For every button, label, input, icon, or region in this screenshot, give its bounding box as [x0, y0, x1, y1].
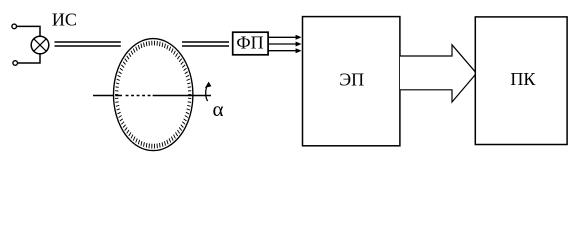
light beam right	[182, 42, 229, 46]
wire bottom terminal to lamp	[18, 54, 40, 63]
lamp ИС	[31, 36, 49, 54]
disc graduation ticks	[115, 41, 191, 149]
block ФП	[233, 32, 268, 55]
svg-text:ПК: ПК	[510, 69, 536, 89]
rotation arrow	[205, 82, 212, 101]
terminal top	[12, 24, 17, 29]
signal arrow 1	[269, 35, 302, 40]
rotation axis	[93, 95, 211, 97]
block arrow to ПК	[400, 45, 477, 102]
svg-text:ФП: ФП	[236, 33, 263, 53]
block ПК	[475, 17, 567, 145]
terminal bottom	[13, 61, 18, 66]
wire top terminal to lamp	[17, 26, 40, 36]
disc ellipse	[114, 39, 193, 151]
signal arrow 2	[269, 42, 302, 47]
block ЭП	[303, 17, 400, 146]
signal arrow 3	[269, 48, 302, 53]
svg-text:ИС: ИС	[52, 9, 77, 29]
svg-text:ЭП: ЭП	[339, 69, 364, 89]
svg-text:α: α	[212, 97, 223, 121]
light beam left	[55, 42, 121, 46]
